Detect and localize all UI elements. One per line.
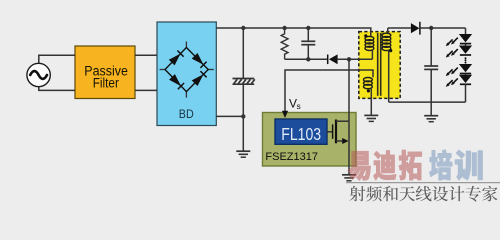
- svg-text:FSEZ1317: FSEZ1317: [265, 151, 318, 163]
- svg-text:s: s: [297, 101, 301, 111]
- svg-text:FL103: FL103: [281, 124, 321, 144]
- svg-text:BD: BD: [179, 107, 194, 121]
- svg-text:Filter: Filter: [93, 76, 120, 91]
